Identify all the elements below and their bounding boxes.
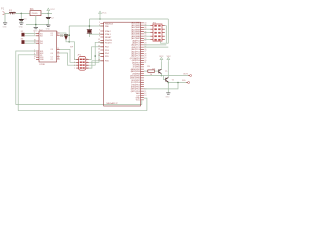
svg-text:IN4: IN4 [40,43,43,45]
wire JP2 right vertical 2 [165,26,167,44]
svg-text:SIG: SIG [182,80,186,82]
junction on vertical [94,55,96,57]
terminal X3 [22,40,25,43]
wire ISP right 1 [89,47,104,60]
svg-text:OUT1: OUT1 [183,73,189,75]
svg-text:3: 3 [74,62,75,64]
svg-text:9: 9 [34,52,35,54]
svg-text:12: 12 [57,55,59,57]
crystal Q1 [88,30,92,32]
svg-text:IN2: IN2 [40,36,43,38]
terminal X2 [22,33,25,36]
svg-text:1k: 1k [150,74,152,76]
output pin 1 [190,75,192,77]
svg-text:PD2: PD2 [105,47,109,49]
svg-text:1: 1 [74,59,75,61]
svg-text:2: 2 [99,25,100,27]
connector X1 [3,12,5,15]
junction diode net [68,34,70,36]
svg-text:8: 8 [87,68,88,70]
svg-text:VCC: VCC [136,100,141,102]
svg-text:PD1/TX: PD1/TX [105,43,112,45]
svg-text:8: 8 [99,33,100,35]
junction crystal [89,25,91,27]
svg-text:VCC: VCC [50,9,55,11]
wire out 2 [168,82,187,84]
vertical net x69 [68,26,70,42]
svg-text:VCC: VCC [102,13,107,15]
wire ISP right 2 [89,53,104,62]
wire IC2 left B down rail2 [18,55,36,111]
svg-text:MEGA32-P: MEGA32-P [107,102,119,105]
svg-text:GND: GND [46,29,51,31]
svg-text:7: 7 [74,68,75,70]
regulator IC1 box [30,11,41,16]
ground under X1 [3,23,7,24]
IC3 right stubs [141,23,144,100]
ISP pin numbers [74,59,88,70]
wire regulator out [41,12,52,14]
junction x178 [177,82,179,84]
wire diode bottom to ISP [66,40,79,60]
transistor T2 [166,78,169,82]
svg-text:13: 13 [144,95,146,97]
svg-text:13: 13 [98,42,100,44]
wire T2 base feed [163,76,165,80]
junction at C2 [48,13,50,15]
svg-text:PD5: PD5 [105,56,109,58]
IC3 left pin numbers [98,22,100,61]
wires IC3 right mid bus [144,45,168,47]
svg-text:RESET: RESET [105,37,112,39]
junction at C1 [21,13,23,15]
output pin 2 [186,82,188,84]
header JP2 stubs [150,26,165,40]
header JP1 box [79,56,86,70]
wire IC2 to diode top [60,33,66,35]
wire IC2 A3 to ISP [60,53,79,65]
bottom rail 2 [18,110,147,112]
transistor T1 [159,69,162,73]
wire R3 to Q1 base [155,70,159,72]
inductor L1 [9,12,15,13]
svg-text:3: 3 [57,32,58,34]
IC3 box [104,22,141,106]
ground under C1 [19,23,23,24]
ground under T2 [166,93,170,94]
svg-text:19: 19 [98,59,100,61]
svg-text:11: 11 [57,48,59,50]
wire VCC stem [99,14,101,20]
IC2 pin numbers right [57,32,59,60]
header JP1 pads [80,59,85,69]
svg-text:9: 9 [99,36,100,38]
supply VCC arrow 4 [167,57,170,62]
wire top long [89,18,168,20]
junction regulator gnd [35,24,37,26]
wire crystal vertical [88,19,90,37]
svg-text:15: 15 [98,45,100,47]
IC3 right pin names [130,22,141,102]
wire X1 down [4,13,6,22]
svg-text:2: 2 [87,59,88,61]
svg-text:6: 6 [87,65,88,67]
wire ISP pin4 to IC3 pin 60.8 [89,61,104,68]
svg-text:VCC: VCC [167,56,172,58]
svg-text:GND: GND [165,96,170,98]
bottom rail 1 [16,104,142,106]
wires IC3 to JP2 left [144,26,150,40]
wire IC2 left A down rail1 [16,51,36,105]
svg-text:16: 16 [98,49,100,51]
IC2 pin names [40,33,53,61]
capacitor C2 [47,13,49,17]
supply VCC arrow 1 [47,8,50,13]
IC3 left pin names [105,23,114,62]
svg-text:PD6: PD6 [105,61,109,63]
junction T2 [168,82,170,84]
wire xtal feed [69,25,104,27]
svg-text:O3: O3 [51,49,53,51]
ground rail wire [26,24,48,26]
svg-text:PB6: PB6 [105,26,109,28]
svg-text:PD3: PD3 [105,50,109,52]
svg-text:P1: P1 [1,6,5,10]
ground under C2 [46,25,50,26]
header JP2 box [153,24,162,41]
wire ISP right 3 [89,42,104,65]
svg-text:14: 14 [57,52,59,54]
svg-text:XTAL2: XTAL2 [105,30,111,33]
capacitor C1 [20,13,22,19]
supply VCC arrow 3 [160,57,163,62]
IC2 left pins [36,34,39,60]
svg-text:18: 18 [98,55,100,57]
svg-text:6: 6 [57,34,58,36]
svg-text:4: 4 [34,58,35,60]
wire JP2 right loop [161,19,169,43]
svg-text:L293D: L293D [39,64,45,66]
wire T1 emitter to rail [160,74,162,76]
svg-text:C2: C2 [51,59,53,61]
diode D1 [64,34,68,36]
svg-text:4: 4 [87,62,88,64]
wire IC2 A1 to ISP [60,49,79,62]
rail1 up to IC3 [141,100,143,104]
resistor R3 [148,70,155,72]
junction T1 [161,75,163,77]
wire xtal2 [89,33,103,35]
junction VCC top [99,18,101,20]
svg-text:13: 13 [57,58,59,60]
wire VCC3 down [160,62,162,70]
wire rail to regulator [16,12,30,14]
wire IC3 to R3 [144,70,148,72]
svg-text:GND: GND [3,26,8,28]
svg-text:16: 16 [34,56,36,58]
wire out long [144,75,190,77]
IC2 pin numbers left [34,32,36,60]
svg-text:5: 5 [74,65,75,67]
svg-text:GND: GND [19,26,24,28]
svg-text:O2: O2 [51,35,53,37]
svg-text:VCC: VCC [159,56,164,58]
wire T2 emitter down [167,82,169,92]
wire VCC4 down [167,62,169,78]
wire x178 down-left [144,83,178,89]
IC2 box [39,31,57,62]
svg-text:7: 7 [99,30,100,32]
ground under regulator [34,27,38,28]
header JP2 pads [154,25,160,41]
IC2 right pins [57,33,60,59]
wire IC2 pin to vertical x69 [60,34,70,36]
wire main rail left [5,12,9,14]
svg-text:PD4: PD4 [105,53,109,55]
rail2 up to IC3 [144,98,147,111]
IC3 left stubs [100,24,103,61]
svg-text:XTAL1: XTAL1 [105,33,111,36]
svg-text:17: 17 [98,52,100,54]
wire regulator gnd down [35,16,37,28]
svg-text:GND: GND [33,30,38,32]
svg-text:78L05: 78L05 [31,13,38,15]
svg-text:O4: O4 [51,53,53,55]
supply VCC arrow 2 [99,11,102,13]
svg-text:21: 21 [144,62,146,64]
IC3 right pin numbers [144,23,146,98]
header JP1 stubs [76,59,89,68]
